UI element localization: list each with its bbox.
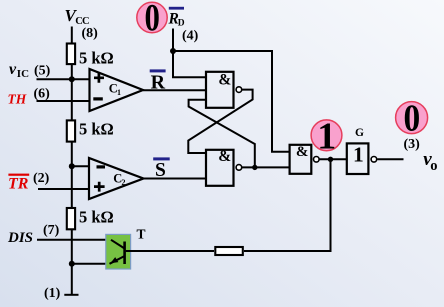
svg-text:S: S [155, 160, 166, 181]
svg-text:2: 2 [122, 178, 126, 187]
wire G1 output to G2 input crossover [188, 90, 252, 153]
svg-text:(1): (1) [44, 286, 61, 301]
svg-text:(5): (5) [34, 63, 51, 78]
label Rbar [150, 69, 166, 93]
resistor R3 5k [67, 208, 75, 229]
node junction pin5/divider [69, 76, 75, 82]
wire pin5 to C1 plus input [37, 78, 91, 80]
svg-text:IC: IC [17, 68, 29, 80]
wire pin7 to transistor collector [37, 239, 112, 241]
label vo [423, 149, 437, 174]
svg-text:v: v [9, 61, 17, 78]
svg-text:(4): (4) [182, 29, 199, 44]
wire pin6 to C1 minus input [37, 100, 91, 102]
svg-text:1: 1 [353, 143, 364, 167]
wire RDbar lead down [172, 29, 174, 52]
svg-text:TR: TR [8, 175, 29, 192]
resistor R1 5k [67, 44, 75, 65]
node junction RDbar [170, 48, 176, 54]
node junction C2 minus/divider [69, 163, 75, 169]
label vIC [9, 61, 29, 80]
svg-text:(7): (7) [43, 223, 60, 238]
svg-text:0: 0 [403, 96, 420, 138]
svg-text:5 kΩ: 5 kΩ [79, 120, 114, 139]
label RDbar [168, 7, 185, 29]
wire G3 output to inverter G [319, 158, 347, 160]
svg-text:1: 1 [117, 88, 121, 97]
op-amp comparator C2 [89, 158, 144, 199]
value 0 bubble at RDbar [137, 0, 167, 40]
svg-text:T: T [137, 226, 146, 241]
wire pin2 to C2 plus input [38, 188, 89, 190]
pin 1 terminal tick [64, 294, 78, 296]
wire C1 output Rbar [143, 89, 206, 91]
wire transistor base to resistor R4 [126, 250, 214, 252]
svg-text:o: o [430, 158, 437, 174]
svg-text:&: & [218, 148, 231, 165]
wire C2 output Sbar [144, 178, 207, 180]
wire resistor R4 to latch output node [244, 159, 331, 251]
wire divider R2-R3 [71, 142, 73, 209]
svg-text:R: R [151, 71, 166, 93]
wire divider R3 to ground terminal [71, 229, 73, 295]
resistor R2 5k [67, 120, 75, 141]
svg-text:G: G [355, 127, 364, 139]
svg-text:&: & [218, 72, 231, 89]
label Sbar [153, 157, 170, 181]
wire RDbar to gate3 top input [173, 51, 290, 152]
value 1 bubble at latch output [311, 116, 342, 158]
svg-text:5 kΩ: 5 kΩ [79, 207, 114, 226]
wire RDbar to gate1 top input [173, 51, 206, 77]
wire divider to C2 minus input [72, 165, 89, 167]
wire emitter to divider [72, 263, 110, 265]
NAND gate G2 [206, 148, 242, 186]
transistor T [110, 240, 125, 264]
wire G output to vo [377, 158, 403, 160]
node junction output to transistor [328, 157, 333, 162]
wire divider R1-R2 [71, 64, 73, 121]
svg-text:DIS: DIS [7, 230, 33, 246]
svg-text:(8): (8) [82, 26, 99, 41]
resistor R4 horizontal [215, 247, 243, 255]
svg-text:1: 1 [317, 116, 336, 158]
inverter G [347, 143, 377, 175]
label TRbar [8, 174, 29, 193]
svg-text:(2): (2) [33, 171, 50, 186]
wire VCC lead [71, 27, 73, 45]
node junction G2 output [252, 165, 257, 170]
NAND gate G1 [206, 72, 242, 108]
svg-text:(6): (6) [34, 86, 51, 101]
svg-text:(3): (3) [404, 137, 421, 152]
op-amp comparator C1 [90, 69, 144, 111]
node junction emitter/divider [69, 261, 75, 267]
NAND gate G3 [290, 144, 320, 174]
wire G2 output to G3 input [242, 166, 290, 168]
svg-text:TH: TH [8, 92, 27, 107]
svg-text:5 kΩ: 5 kΩ [79, 49, 114, 68]
svg-text:0: 0 [145, 0, 160, 40]
svg-text:D: D [178, 18, 185, 28]
value 0 bubble at output [396, 96, 428, 138]
svg-text:&: & [296, 144, 309, 160]
transistor T highlight box [106, 234, 131, 269]
label VCC [65, 6, 89, 27]
wire G2 output to G1 input crossover [189, 100, 255, 168]
